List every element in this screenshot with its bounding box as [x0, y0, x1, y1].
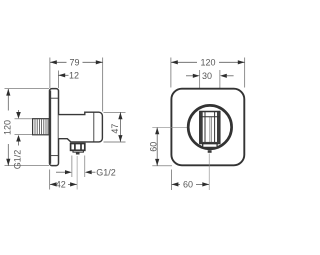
dim 79 line: [50, 60, 103, 64]
pivot ring circle: [188, 105, 231, 148]
holder fork (front view slot): [200, 112, 220, 144]
dim 60 bottom line: [172, 182, 210, 186]
dim 60 left line: [155, 128, 159, 166]
escutcheon square: [171, 89, 244, 166]
outlet collar: [73, 150, 83, 152]
dim 79 extension line right (body end): [102, 58, 104, 112]
G1/2 outlet arrows: [56, 170, 96, 174]
holder body (side view): [59, 112, 103, 142]
svg-text:12: 12: [69, 71, 79, 81]
outlet nut: [71, 144, 85, 151]
dim 120 bottom extension line: [5, 165, 50, 167]
dim 120 label: [200, 58, 215, 68]
dim 60 bottom label: [183, 180, 193, 190]
svg-text:60: 60: [148, 142, 158, 152]
svg-text:79: 79: [69, 58, 79, 68]
dim 120 top extension line: [5, 88, 50, 90]
dim 47 extension lines: [104, 112, 126, 142]
wall thread extension lines: [15, 119, 33, 135]
G1/2 outlet label: [96, 168, 116, 178]
dim 79 label: [69, 58, 79, 68]
dim 12 label: [69, 71, 79, 81]
svg-text:G1/2: G1/2: [13, 150, 23, 170]
wall thread (hatched box): [33, 119, 50, 135]
dim 60 left extension line bottom: [152, 165, 172, 167]
G1/2 wall thread arrows: [16, 110, 21, 146]
dim 47 label (rotated): [110, 124, 120, 134]
dim 30 label: [202, 71, 212, 81]
G1/2 outlet extension lines: [72, 156, 85, 178]
dim 30 extension lines: [200, 70, 220, 111]
dim 120 label (rotated): [2, 120, 12, 135]
dim 47 line: [118, 112, 122, 141]
outlet centerline: [76, 156, 78, 190]
svg-text:60: 60: [183, 180, 193, 190]
svg-text:120: 120: [2, 120, 12, 135]
dim 120 line: [171, 60, 245, 64]
svg-text:G1/2: G1/2: [96, 168, 116, 178]
dim 60 bottom extension line left: [171, 170, 173, 191]
svg-text:42: 42: [56, 180, 66, 190]
G1/2 wall thread label (rotated): [13, 150, 23, 170]
dim 12 extension line (plate front): [57, 71, 59, 89]
wall plate (side view): [50, 89, 59, 166]
dim 120 line: [6, 89, 10, 166]
dim 60 left label (rotated): [148, 142, 158, 152]
fork foot: [203, 144, 217, 148]
svg-text:120: 120: [200, 58, 215, 68]
vertical centerline below (bottom 60 right extension): [208, 154, 210, 191]
svg-text:47: 47: [110, 124, 120, 134]
dim 42 extension line left: [49, 170, 51, 190]
dim 42 label: [56, 180, 66, 190]
outlet tip: [76, 152, 80, 154]
dim 42 line: [50, 182, 77, 186]
dim 30 arrows: [186, 74, 234, 78]
dim 79 extension line left (wall face): [49, 58, 51, 89]
dim 120 extension lines: [171, 58, 245, 88]
dim 12 arrow + line: [58, 73, 68, 77]
svg-text:30: 30: [202, 71, 212, 81]
horizontal centerline (left 60 top extension): [152, 126, 199, 128]
fork bottom tip: [208, 150, 212, 153]
